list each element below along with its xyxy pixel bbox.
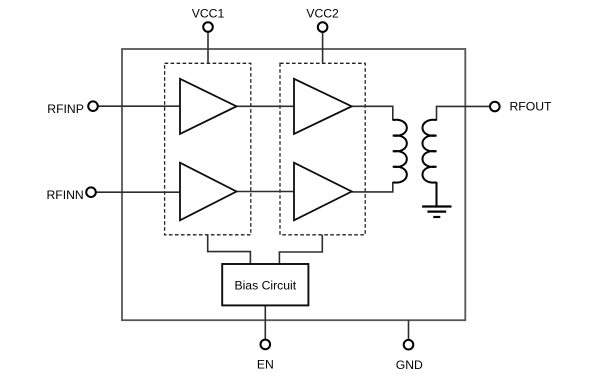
svg-text:Bias Circuit: Bias Circuit: [234, 279, 296, 293]
svg-text:RFOUT: RFOUT: [510, 99, 553, 113]
svg-text:RFINP: RFINP: [47, 102, 84, 116]
svg-text:GND: GND: [396, 358, 423, 372]
svg-text:VCC2: VCC2: [306, 7, 339, 21]
svg-text:EN: EN: [257, 358, 274, 372]
svg-text:VCC1: VCC1: [192, 7, 225, 21]
svg-text:RFINN: RFINN: [47, 188, 84, 202]
